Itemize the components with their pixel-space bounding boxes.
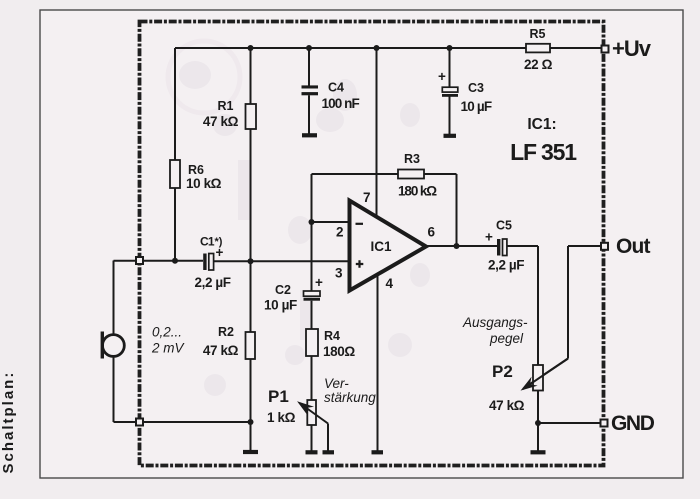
svg-text:IC1:: IC1: [527,116,556,133]
node P2 gnd [535,420,541,426]
terminal square mic bottom [136,419,143,426]
svg-text:GND: GND [611,412,655,435]
svg-text:47 kΩ: 47 kΩ [489,398,525,413]
node R1/R2 input [248,258,254,264]
svg-text:C3: C3 [468,81,484,95]
potentiometer P2 [489,359,568,414]
svg-text:IC1: IC1 [370,239,392,254]
wire R6 to input node [174,188,176,261]
svg-text:Ausgangs-: Ausgangs- [462,315,528,330]
svg-text:100 nF: 100 nF [322,96,360,111]
node rail C4 [306,45,312,51]
label Ausgangspegel [462,315,528,346]
svg-text:6: 6 [428,225,436,240]
ground P1 wiper [323,450,335,454]
svg-text:1 kΩ: 1 kΩ [267,410,296,425]
svg-text:R6: R6 [188,163,204,177]
wire R1 branch from rail [250,48,252,104]
svg-text:C2: C2 [275,283,291,297]
input node line (pin3 net) [114,260,350,262]
terminal GND [601,412,655,435]
svg-text:180Ω: 180Ω [323,344,355,359]
svg-text:2,2 µF: 2,2 µF [195,275,231,290]
resistor R2 [203,325,255,359]
svg-text:4: 4 [386,276,394,291]
resistor R3 [398,152,437,199]
svg-text:7: 7 [363,190,371,205]
node mic return [248,419,254,425]
wire mic top [113,261,115,335]
label Verstaerkung [324,376,376,405]
wire C3 branch [449,48,451,134]
wire output to C5 [427,245,498,247]
terminal square mic top [136,257,143,264]
label 0,2... 2 mV [151,325,186,356]
terminal +Uv [602,36,652,61]
svg-text:R4: R4 [324,329,340,343]
svg-text:+: + [485,230,493,245]
svg-text:C1: C1 [200,235,215,249]
wire +Uv top rail [175,47,601,49]
svg-text:Ver-: Ver- [324,376,349,391]
svg-text:C4: C4 [328,81,344,95]
capacitor C1 [195,235,231,291]
wire op-amp pin7 supply [376,48,378,216]
node output [454,243,460,249]
svg-text:2,2 µF: 2,2 µF [488,258,524,273]
resistor R1 [203,99,256,129]
ground C4 [302,133,317,137]
wire P2 to GND node [538,391,601,451]
ground P2 [531,450,546,454]
node rail C3 [447,45,453,51]
svg-text:22 Ω: 22 Ω [524,57,553,72]
wire R1 to input node [250,129,252,261]
svg-text:LF 351: LF 351 [510,139,577,165]
svg-text:P2: P2 [492,362,513,381]
svg-text:47 kΩ: 47 kΩ [203,114,239,129]
ground R2 [243,450,258,454]
capacitor C2 [264,275,323,313]
svg-text:pegel: pegel [489,331,524,346]
wire C2 to R4 [311,301,313,329]
wire C5 to P2 [507,246,538,365]
ground pin4 [372,450,384,454]
wire R3 to output node [424,174,457,246]
svg-text:R5: R5 [530,27,546,41]
svg-text:2 mV: 2 mV [151,341,186,356]
svg-text:47 kΩ: 47 kΩ [203,343,239,358]
terminal Out [601,235,651,258]
circuit boundary (dash-dot border) [140,22,604,466]
microphone [102,332,124,359]
resistor R4 [306,329,355,359]
capacitor C4 [302,81,360,112]
potentiometer P1 [267,387,328,425]
svg-text:10 µF: 10 µF [461,99,492,114]
resistor R5 [524,27,553,72]
svg-text:Out: Out [616,235,651,258]
wire input node to R2 [250,261,252,332]
op-amp IC1 triangle [350,201,427,291]
wire P1 wiper to ground [327,424,329,451]
svg-text:+: + [315,275,323,290]
svg-text:+: + [438,69,446,84]
svg-text:P1: P1 [268,387,289,406]
wire R2 to ground [250,359,252,451]
wire pin2 to inverting input [312,174,399,222]
ground C3 [444,134,457,138]
wire R4 to P1 [311,356,313,400]
svg-text:Schaltplan:: Schaltplan: [0,371,17,474]
svg-text:R3: R3 [404,152,420,166]
svg-text:+: + [216,245,224,260]
wire pin2 to C2 [311,222,313,291]
wire C4 branch [308,48,310,134]
node rail pin7 [374,45,380,51]
svg-text:2: 2 [336,225,344,240]
node pin2 [309,219,315,225]
capacitor C5 [485,219,524,273]
svg-text:10 kΩ: 10 kΩ [186,176,222,191]
svg-text:R2: R2 [218,325,234,339]
svg-text:10 µF: 10 µF [264,298,297,313]
wire pin4 to ground [377,275,379,451]
ground P1 body [306,450,318,454]
resistor R6 [170,160,222,191]
svg-text:C5: C5 [496,219,512,233]
svg-text:stärkung: stärkung [324,390,376,405]
svg-text:R1: R1 [218,99,234,113]
capacitor C3 [438,69,492,114]
wire Out terminal branch [524,246,601,388]
svg-text:0,2...: 0,2... [152,325,182,340]
wire left vertical from rail to R6 [174,48,176,160]
node rail R1 [248,45,254,51]
svg-text:180 kΩ: 180 kΩ [398,184,437,199]
svg-text:3: 3 [335,266,343,281]
wire mic bottom [114,357,251,422]
node R6/C1 [172,258,178,264]
svg-text:+Uv: +Uv [612,36,652,61]
wire P1 body to ground [311,425,313,451]
